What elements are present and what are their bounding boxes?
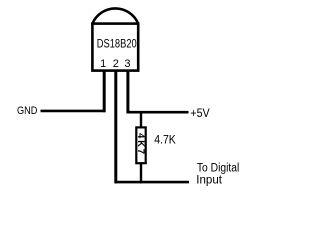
svg-text:4.7K: 4.7K xyxy=(154,132,176,146)
wire GND horizontal xyxy=(41,110,106,113)
svg-text:4K7: 4K7 xyxy=(136,133,146,156)
svg-text:DS18B20: DS18B20 xyxy=(97,37,137,51)
pin 1 lead xyxy=(103,70,106,113)
pin 3 lead xyxy=(126,70,129,114)
wire +5V horizontal xyxy=(127,111,189,114)
wire to digital input horizontal xyxy=(115,181,190,184)
sensor U1 DS18B20 dome top arc xyxy=(92,8,138,23)
wire resistor bottom stub xyxy=(140,163,142,184)
svg-text:3: 3 xyxy=(124,58,130,70)
sensor U1 DS18B20 body rectangle (TO-92 outline) xyxy=(92,24,138,71)
svg-text:2: 2 xyxy=(113,58,119,70)
svg-text:1: 1 xyxy=(100,58,106,70)
resistor R1 4K7 box xyxy=(136,127,145,163)
svg-text:Input: Input xyxy=(196,174,223,186)
wire resistor top stub (junction with +5V wire) xyxy=(140,112,142,128)
svg-text:GND: GND xyxy=(17,105,37,117)
svg-text:+5V: +5V xyxy=(190,107,210,120)
pin 2 lead xyxy=(114,70,117,184)
svg-text:To Digital: To Digital xyxy=(197,163,239,175)
